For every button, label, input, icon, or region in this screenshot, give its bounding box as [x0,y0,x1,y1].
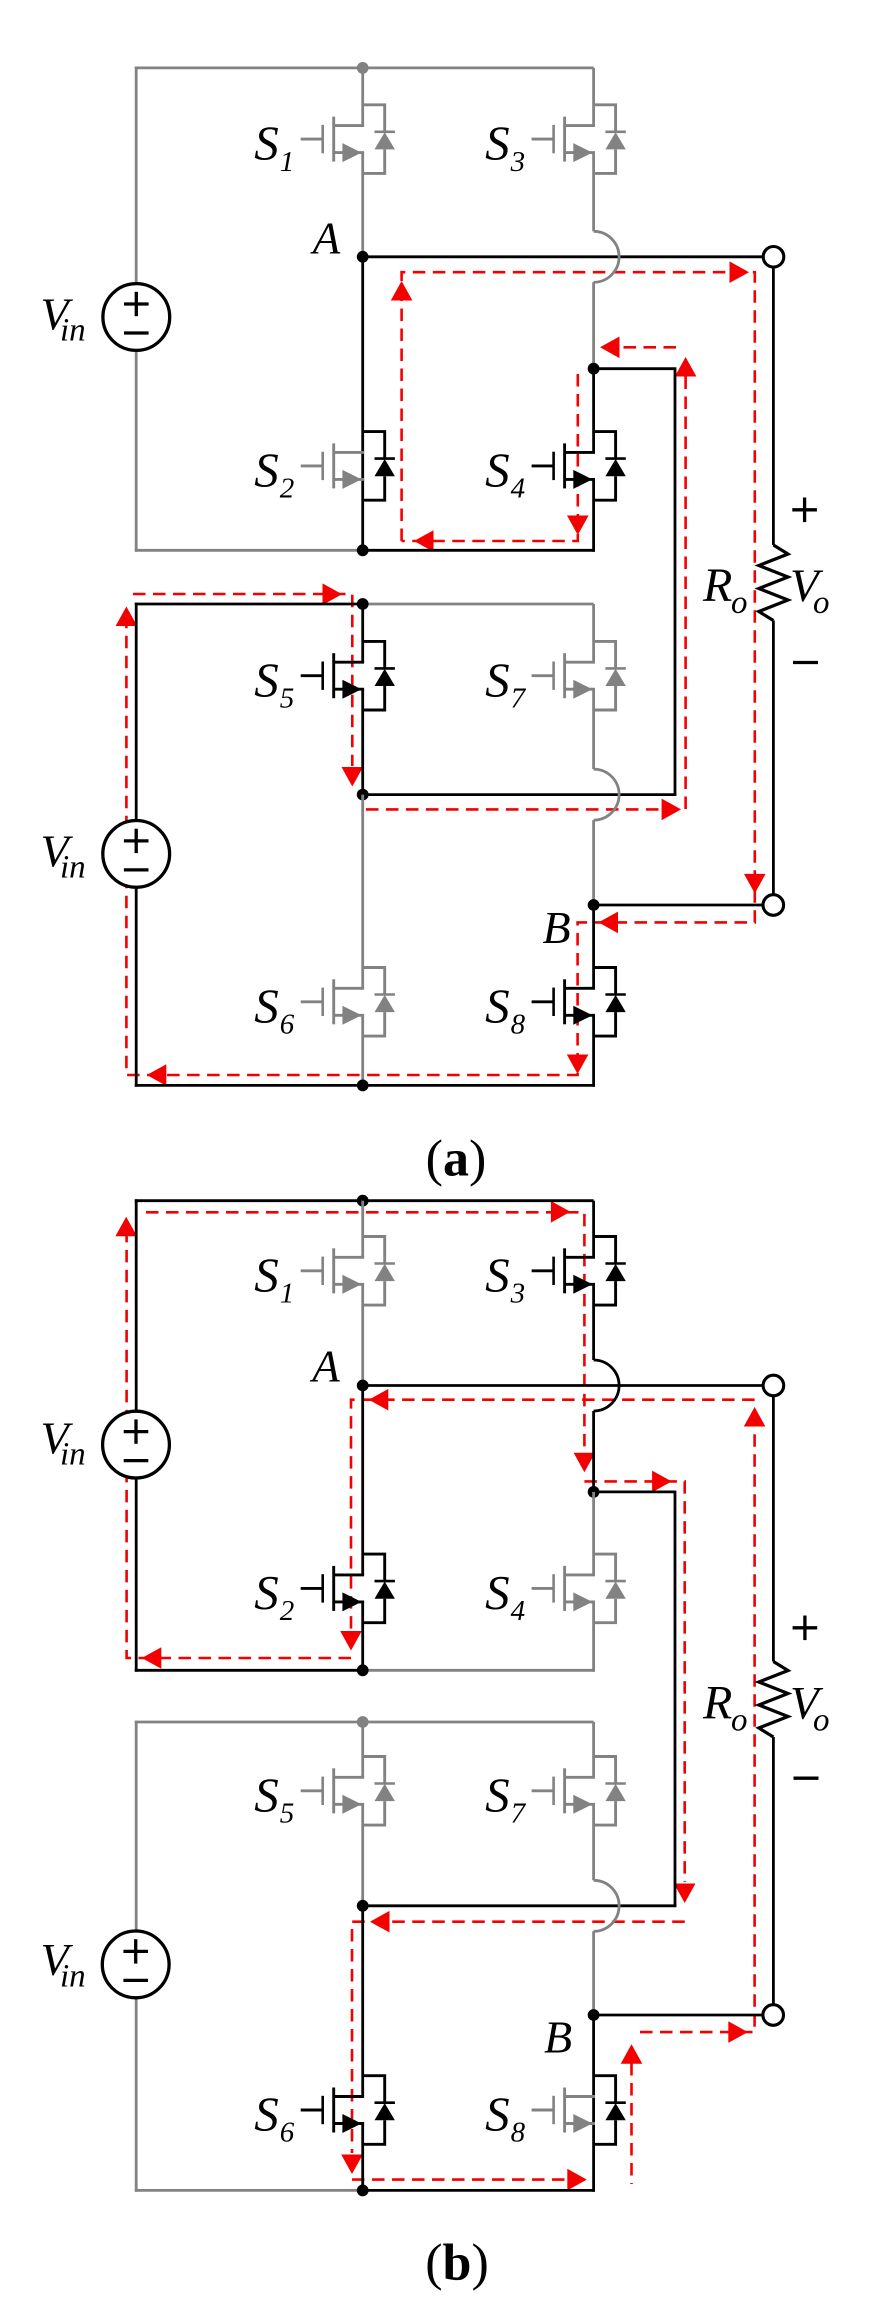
svg-text:S: S [485,443,510,498]
current path (a): into node above S4 [600,337,676,359]
wire: S7 leg below hop to node B (b) [592,1931,595,2015]
junction dot (a) top rail [357,62,369,74]
junction dot (b2) top rail [357,1716,369,1728]
svg-text:5: 5 [280,682,295,714]
wire: node B to output terminal (b) [594,2014,763,2017]
mosfet S7 (off) [532,641,626,710]
svg-text:B: B [543,902,571,953]
mosfet S4 (b, off) [532,1554,626,1623]
wire: (a2) left rail upper [135,603,138,821]
wire: output upper drop (b) [772,1396,775,1662]
wire: S3 source lead to hop (b) [592,1284,595,1360]
svg-text:o: o [731,1702,748,1738]
svg-text:8: 8 [511,2117,526,2149]
svg-text:S: S [254,978,279,1033]
junction dot (a2) mid node [357,789,369,801]
plus sign (b output) [793,1616,818,1641]
wire: node to connector corner [594,369,675,795]
svg-text:3: 3 [510,1278,525,1310]
wire: (b2) left rail upper [135,1721,138,1931]
current path (a): through S4 channel to S2 diode [402,374,589,552]
wire: S5 source lead [361,689,364,794]
wire: (b) top rail [135,1199,594,1202]
svg-text:2: 2 [280,1595,295,1627]
wire: node to connector corner (b) [594,1492,675,1906]
svg-text:o: o [813,1702,830,1738]
svg-text:S: S [254,2087,279,2142]
wire: S6 source lead [361,1015,364,1087]
resistor Ro (b) [759,1662,788,1738]
svg-text:S: S [485,1247,510,1302]
wire: S6 drain leg [361,795,364,989]
resistor Ro (a) [759,545,788,621]
wire: (b2) bottom rail black part [363,2189,595,2192]
wire: (a2) bottom rail [135,1084,595,1087]
current path (a): S2-diode loop up to output terminal [116,261,766,1085]
minus sign (a output) [793,661,818,664]
svg-text:B: B [544,2012,572,2063]
wire: S5 source lead (b) [361,1804,364,1906]
wire: S7 drain lead (b) [592,1722,595,1777]
wire: (a2) top rail black part [135,603,363,606]
svg-text:in: in [60,313,86,349]
junction dot (b2) mid node [357,1900,369,1912]
svg-text:in: in [60,850,86,886]
mosfet S1 (off) [301,105,395,174]
wire: (a2) node horizontal to connector [363,793,677,796]
wire: S1 source lead to node A (b) [361,1284,364,1385]
wire: (a2) top rail gray part [363,603,594,606]
wire: (b) left rail lower [135,1478,138,1672]
wire: (b) top bridge bottom rail gray part [363,1669,595,1672]
mosfet S8 (on) [532,968,626,1037]
current path (b): from S3 node down the connector [584,1471,695,1903]
mosfet S6 (b, on) [301,2076,395,2145]
mosfet S2 (b, on) [301,1554,395,1623]
wire: node B to output terminal [594,904,763,907]
wire crossover hop on S7 leg (b) [594,1880,620,1931]
wire: (a) top bridge bottom rail gray part [135,549,363,552]
svg-text:S: S [485,1767,510,1822]
svg-text:A: A [310,213,341,263]
mosfet S3 (b, on) [532,1237,626,1306]
wire: node A output wire [363,255,764,258]
current path (a): bottom bridge to top bridge riser [366,357,696,820]
junction dot node B (a) [588,899,600,911]
svg-text:in: in [60,1959,86,1995]
junction dot bottom rail (a top) [357,544,369,556]
wire: output upper drop (a) [772,267,775,545]
node A junction dot [357,251,369,263]
svg-text:S: S [254,1247,279,1302]
svg-text:1: 1 [280,1278,295,1310]
wire: S3 source lead [592,153,595,232]
minus sign (b output) [794,1777,819,1780]
svg-text:S: S [485,978,510,1033]
wire crossover hop on S3 leg [594,231,619,282]
svg-text:5: 5 [280,1798,295,1830]
plus sign (a output) [792,498,817,523]
svg-text:(b): (b) [425,2235,489,2292]
svg-text:S: S [254,443,279,498]
wire: S3 leg below hop to node (b) [592,1411,595,1492]
svg-text:o: o [813,585,830,621]
wire: S6 drain leg (b) [361,1906,364,2097]
wire: (b2) node horizontal to connector [363,1904,677,1907]
voltage source Vin (a) bottom bridge [103,821,170,888]
current path (b): back into node A and through S2 [340,1389,754,1651]
svg-text:S: S [485,116,510,171]
current path (b): across to S6 and down [341,1911,685,2174]
svg-text:S: S [485,1565,510,1620]
wire: output lower drop (b) [772,1737,775,2005]
wire: (a) left rail upper [135,67,138,284]
voltage source Vin (a) top bridge [103,284,170,351]
current path (b): node B to output terminal riser [640,1407,765,2043]
wire: S8 drain lead [592,905,595,988]
wire: (a2) left rail lower [135,887,138,1086]
wire: node A down through S2 (b) [361,1386,364,1575]
svg-text:8: 8 [511,1009,526,1041]
wire: S5 drain lead (b) [361,1722,364,1777]
wire: (a) top rail [135,67,594,70]
svg-text:in: in [60,1437,86,1473]
wire: S4 drain lead (b) [592,1492,595,1575]
svg-text:S: S [485,652,510,707]
junction dot node B (b) [588,2009,600,2021]
wire: S2 source lead (b) [361,1602,364,1672]
output terminal - (a) [763,895,784,916]
svg-text:6: 6 [280,2117,295,2149]
wire: S7 source lead to hop (b) [592,1804,595,1880]
mosfet S7 (b, off) [532,1757,626,1826]
mosfet S5 (b, off) [301,1757,395,1826]
svg-text:A: A [309,1342,340,1392]
mosfet S5 (on) [301,641,395,710]
voltage source Vin (b) top bridge [103,1411,170,1478]
wire: S3 drain lead [592,68,595,126]
svg-text:2: 2 [280,473,295,505]
wire: (a) left rail lower [135,351,138,552]
wire: S4 drain lead [592,369,595,453]
svg-text:o: o [731,585,748,621]
mosfet S6 (off) [301,968,395,1037]
wire: S4 source lead (b) [592,1602,595,1672]
wire: (b2) left rail lower [135,1998,138,2192]
output terminal + (b) [763,1375,784,1396]
mosfet S3 (off) [532,105,626,174]
svg-text:S: S [254,116,279,171]
junction dot bottom rail (b top) [357,1664,369,1676]
svg-text:R: R [702,1677,732,1730]
svg-text:7: 7 [511,682,527,714]
junction dot bottom rail (a2) [357,1080,369,1092]
svg-text:R: R [702,559,732,612]
output terminal + (a) [763,246,784,267]
wire: S5 drain lead [361,604,364,662]
current path (b): Vin loop via S2 and left rail [115,1201,595,1669]
svg-text:3: 3 [510,146,525,178]
wire: S1 drain lead (b) [361,1201,364,1258]
svg-text:S: S [485,2087,510,2142]
wire: S4 source lead [592,479,595,551]
wire: S8 source lead [592,1015,595,1087]
junction dot (b) top rail [357,1195,369,1207]
wire: (b2) top rail [135,1721,594,1724]
svg-text:4: 4 [511,1595,525,1627]
wire: S7 leg below hop to node B [592,820,595,905]
current path (b): along bottom wire up S8 diode side [352,2044,642,2190]
mosfet S4 (on) [532,432,626,501]
junction dot bottom rail (b2) [357,2185,369,2197]
svg-text:S: S [254,1767,279,1822]
svg-text:7: 7 [511,1798,527,1830]
mosfet S2 (body diode conducting) [301,432,395,501]
wire: S6 source lead (b) [361,2124,364,2192]
wire: S1 drain lead [361,68,364,126]
wire: S7 source lead to hop [592,689,595,769]
mosfet S1 (b, off) [301,1237,395,1306]
svg-text:4: 4 [511,473,525,505]
mosfet S8 (b, body diode conducting) [532,2076,626,2145]
wire: S3 leg below hop to node [592,282,595,368]
node A junction dot (b) [357,1380,369,1392]
wire: output lower drop (a) [772,621,775,895]
svg-text:6: 6 [280,1009,295,1041]
junction dot node below S3 [588,363,600,375]
junction dot node below S3 (b) [588,1486,600,1498]
wire: (a) top bridge bottom rail black part [363,549,595,552]
svg-text:S: S [254,1565,279,1620]
wire: node A down through S2 to bottom [361,257,364,552]
svg-text:(a): (a) [426,1131,487,1188]
svg-text:1: 1 [280,146,295,178]
svg-text:S: S [254,652,279,707]
wire: S3 drain lead (b) [592,1201,595,1258]
wire: node B through S8 to bottom (b) [592,2015,595,2192]
wire crossover hop on S7 leg [594,769,620,820]
wire: (b2) bottom rail gray part [135,2189,363,2192]
junction dot (a2) top rail [357,598,369,610]
wire crossover hop on S3 leg (b) [594,1360,620,1411]
wire: node A output wire (b) [363,1384,763,1387]
output terminal - (b) [763,2005,784,2026]
wire: (b) left rail upper [135,1199,138,1411]
wire: S1 source lead to node A [361,153,364,257]
wire: (b) top bridge bottom rail black part [135,1669,363,1672]
wire: S7 drain lead [592,604,595,662]
voltage source Vin (b) bottom bridge [102,1931,169,1998]
